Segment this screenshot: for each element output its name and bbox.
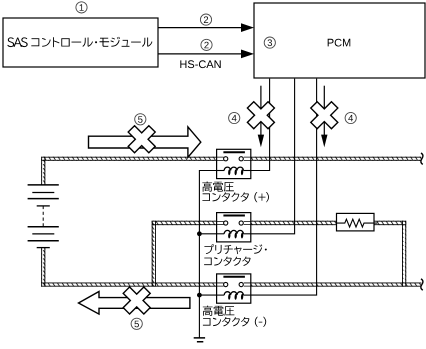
wire W3 bottom HV cable left segment [41, 283, 217, 287]
wire battery negative lead vertical [41, 247, 45, 286]
node 2 circled (line 1) [200, 14, 211, 25]
contactor HV (+) [217, 149, 251, 178]
label HS-CAN [180, 60, 220, 68]
junction dot contactor3 coil / ground bus [197, 293, 202, 298]
blocked X left [240, 95, 281, 136]
battery HV battery pack [28, 185, 59, 248]
wire PCM drive arrow left [260, 86, 262, 136]
wire CAN line 2 SAS to PCM [158, 53, 242, 55]
wire W1 top HV cable right segment [251, 157, 422, 161]
wire PCM to contactor3 coil (via node at x=316.6) [251, 79, 317, 296]
wire PCM to contactor1 coil (via node at x=269.6) [251, 79, 270, 171]
node 5 circled top [135, 114, 146, 125]
wire contactor3 coil left lead [199, 294, 216, 296]
wire precharge coil left lead [199, 233, 216, 235]
wire break mark bottom right [421, 279, 423, 290]
wire W2 precharge cable right segment [374, 221, 406, 225]
node 4 circled right [345, 112, 356, 123]
blocked X right [304, 95, 345, 136]
PCM box [254, 3, 425, 78]
wire W2 precharge cable middle segment [251, 221, 337, 225]
ground symbol [194, 338, 205, 342]
node 4 circled left [229, 112, 240, 123]
wire break mark top right [421, 153, 423, 164]
blocked X on bottom arrow [116, 280, 157, 321]
wire precharge branch drop right vertical [402, 221, 406, 287]
wire CAN line 1 SAS to PCM [158, 27, 242, 29]
contactor precharge [217, 213, 251, 242]
wire battery positive lead vertical [41, 157, 45, 185]
contactor HV (-) [217, 274, 251, 303]
wire W1 top HV cable left segment [41, 157, 217, 161]
label precharge contactor [204, 244, 266, 254]
node 1 circled [76, 2, 87, 13]
wire PCM to precharge contactor coil (via node at x=294.6) [251, 79, 295, 234]
node 3 circled [264, 37, 275, 48]
label PCM [328, 39, 351, 47]
wire W3 bottom HV cable right segment [251, 283, 422, 287]
wire PCM drive arrow right [323, 86, 325, 136]
current flow arrow left (blocked) [79, 292, 190, 315]
node 5 circled bottom [131, 318, 142, 329]
wire ground bus from contactor1 coil down to ground [199, 171, 216, 338]
node 2 circled (line 2) [201, 39, 212, 50]
blocked X on top arrow [121, 119, 162, 160]
SAS control module box [3, 18, 158, 67]
current flow arrow right (blocked) [89, 127, 201, 157]
label SAS control module text [7, 37, 152, 47]
label HV contactor (-) [203, 306, 235, 316]
junction dot precharge coil / ground bus [197, 231, 202, 236]
wire W2 precharge cable left segment [152, 221, 217, 225]
wire precharge branch drop left vertical [152, 221, 156, 287]
label HV contactor (+) [202, 182, 234, 192]
resistor precharge resistor R [337, 213, 375, 231]
